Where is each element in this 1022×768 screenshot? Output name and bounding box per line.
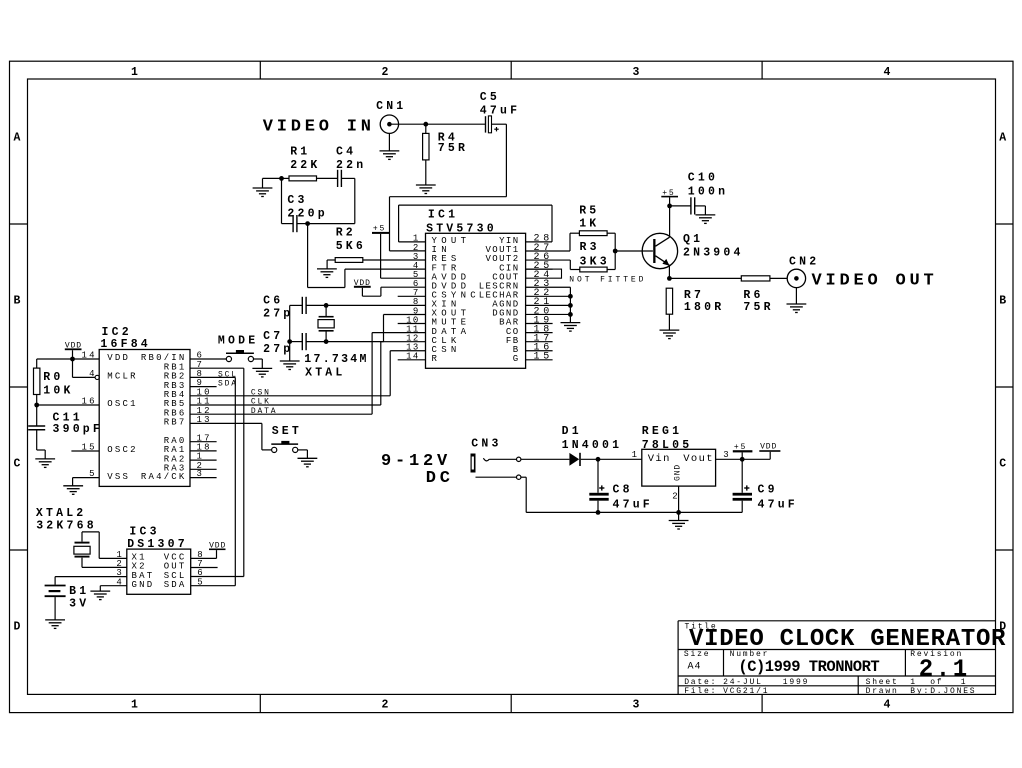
svg-text:VIDEO OUT: VIDEO OUT	[812, 272, 938, 291]
svg-text:4: 4	[883, 699, 893, 712]
wire X1 pin 1	[99, 557, 127, 559]
connector CN2	[787, 256, 819, 304]
power VDD at REG1 output	[742, 442, 780, 459]
IC1 unconnected stubs pins 7 10 14	[398, 296, 426, 359]
svg-text:Vin: Vin	[648, 453, 671, 465]
ground at IC3 GND	[90, 591, 110, 600]
wire loop IC1 pin1 YOUT to pin28 YIN	[399, 205, 552, 242]
svg-text:C7: C7	[263, 330, 283, 343]
junction CN1/R4/C5	[423, 122, 428, 127]
svg-text:3: 3	[632, 699, 642, 712]
svg-text:File:: File:	[684, 687, 717, 696]
junction D1/C8	[596, 457, 601, 462]
svg-text:22K: 22K	[290, 159, 320, 172]
svg-text:GND: GND	[673, 464, 682, 481]
title block	[678, 621, 1006, 696]
svg-text:B: B	[999, 295, 1009, 308]
svg-text:D1: D1	[562, 425, 582, 438]
ground at R1 left	[253, 178, 282, 196]
svg-text:2: 2	[381, 66, 391, 79]
ground at rail	[669, 512, 689, 529]
svg-text:VIDEO IN: VIDEO IN	[263, 118, 375, 137]
junction +5/C10	[667, 204, 672, 209]
IC2 16F84 body	[99, 326, 190, 486]
svg-text:13: 13	[197, 415, 212, 425]
svg-text:RB7: RB7	[164, 418, 187, 428]
svg-text:75R: 75R	[743, 301, 773, 314]
wires IC1 pins 20-23 to ground	[526, 287, 571, 322]
wire MCLR pin 4	[73, 359, 100, 380]
IC3 pin numbers	[116, 550, 204, 587]
svg-text:VIDEO CLOCK GENERATOR: VIDEO CLOCK GENERATOR	[689, 626, 1006, 653]
svg-text:IC3: IC3	[129, 526, 159, 539]
junction C7 left	[287, 339, 292, 344]
svg-text:14: 14	[82, 351, 97, 361]
ground at R2 left	[317, 260, 337, 277]
svg-text:By:: By:	[910, 687, 930, 696]
svg-text:2: 2	[381, 699, 391, 712]
svg-text:A: A	[13, 132, 23, 145]
wire XIN pin 8	[326, 304, 425, 306]
capacitor C5 47uF	[480, 91, 520, 133]
power +5 at Q1 collector	[661, 189, 678, 206]
resistor R3 3K3 not fitted	[526, 241, 616, 272]
svg-text:100n: 100n	[688, 185, 728, 198]
svg-text:G: G	[513, 354, 520, 364]
wire node down to IC1 pin 4 FTR	[308, 224, 426, 288]
transistor-switch MODE button	[190, 335, 262, 369]
ground under B1	[45, 620, 65, 629]
ground under VSS	[63, 486, 83, 495]
svg-text:VCG21/1: VCG21/1	[723, 687, 769, 696]
svg-text:R2: R2	[336, 227, 356, 240]
svg-text:32K768: 32K768	[36, 520, 97, 533]
power VDD to IC1 pin 6 DVDD	[354, 279, 426, 296]
wire OSC1 pin 16	[37, 404, 99, 406]
capacitor C3 220p	[282, 178, 328, 232]
svg-text:180R: 180R	[684, 301, 724, 314]
svg-text:RA4/CK: RA4/CK	[141, 472, 187, 482]
IC3 DS1307 body	[127, 526, 191, 595]
wire C5 to IC1 pin 2	[390, 124, 507, 251]
svg-text:C: C	[13, 458, 23, 471]
svg-text:47uF: 47uF	[613, 499, 653, 512]
resistor R2 5K6	[327, 227, 425, 263]
svg-text:15: 15	[534, 352, 553, 363]
svg-text:4: 4	[116, 577, 124, 587]
svg-text:Vout: Vout	[683, 453, 714, 465]
IC2 right pin names	[141, 353, 187, 482]
junction REG1 gnd rail	[676, 510, 681, 515]
svg-text:OSC1: OSC1	[107, 399, 137, 409]
svg-text:4: 4	[89, 369, 97, 379]
junction R0/C11/OSC1	[34, 403, 39, 408]
svg-text:390pF: 390pF	[53, 423, 104, 436]
ground IC1 analog/digital	[561, 323, 581, 332]
junction C8 rail	[596, 510, 601, 515]
junction DGND	[568, 303, 573, 308]
diode D1 1N4001	[562, 425, 623, 466]
switch SET button	[190, 423, 307, 458]
junction VDD/R0	[70, 357, 75, 362]
svg-text:C9: C9	[758, 483, 778, 496]
ground under CN2	[787, 304, 807, 313]
svg-text:1: 1	[910, 678, 917, 687]
op-amp U IC1 STV5730 body	[426, 209, 526, 369]
wire OUT stub pin 7	[191, 567, 218, 569]
junction pin20	[568, 312, 573, 317]
svg-text:SET: SET	[272, 425, 302, 438]
svg-text:C: C	[999, 458, 1009, 471]
svg-text:9-12V: 9-12V	[381, 452, 451, 471]
wire CLK IC1 pin12 to RB5	[190, 342, 426, 405]
svg-text:DATA: DATA	[251, 407, 277, 416]
IC2 right pin numbers	[197, 351, 212, 480]
svg-text:A4: A4	[688, 662, 702, 673]
IC1 left pin names	[432, 236, 481, 364]
junction XTAL bottom	[324, 339, 329, 344]
svg-text:R: R	[432, 354, 442, 364]
svg-text:1999: 1999	[783, 678, 809, 687]
svg-text:XTAL: XTAL	[305, 366, 345, 379]
svg-text:16: 16	[82, 397, 97, 407]
IC1 right unconnected stubs pins 15-19 25	[526, 269, 553, 360]
power +5 to IC1 pin 5 AVDD	[372, 224, 426, 278]
svg-text:VDD: VDD	[107, 353, 130, 363]
power VDD at IC3 VCC	[191, 542, 227, 559]
svg-text:27p: 27p	[263, 343, 293, 356]
svg-text:1: 1	[131, 699, 141, 712]
capacitor C8 47uF	[589, 459, 653, 512]
ground under C7	[280, 342, 300, 370]
net label 9-12V DC	[381, 452, 454, 488]
resistor R6 75R	[669, 276, 787, 314]
resistor R5 1K	[526, 205, 616, 251]
svg-text:3: 3	[632, 66, 642, 79]
wire CN1 to node	[389, 123, 425, 125]
svg-text:CSN: CSN	[251, 389, 271, 398]
IC1 pin 24 no-connect box	[526, 269, 562, 278]
svg-text:CN2: CN2	[789, 256, 819, 269]
svg-text:D: D	[13, 621, 23, 634]
junction +5/C9/VDD	[740, 457, 745, 462]
svg-text:MCLR: MCLR	[107, 372, 137, 382]
junction C3/C4/R2 node	[305, 221, 310, 226]
svg-text:3K3: 3K3	[580, 255, 610, 268]
wire GND pin 4 to ground	[100, 586, 127, 591]
svg-text:R5: R5	[579, 205, 599, 218]
capacitor C10 100n	[670, 172, 729, 215]
svg-text:DC: DC	[426, 469, 454, 488]
ground under CN1	[380, 133, 400, 159]
capacitor C4 22n	[336, 145, 366, 187]
svg-text:5: 5	[89, 469, 97, 479]
svg-text:CLK: CLK	[251, 398, 271, 407]
svg-text:CN3: CN3	[471, 437, 501, 450]
svg-text:D.JONES: D.JONES	[930, 687, 976, 696]
svg-text:B: B	[13, 295, 23, 308]
svg-text:4: 4	[883, 66, 893, 79]
wire REG1 GND pin 2 to rail	[678, 486, 680, 512]
svg-text:C5: C5	[480, 91, 500, 104]
voltage regulator REG1 78L05	[632, 425, 731, 502]
svg-text:VDD: VDD	[760, 442, 777, 451]
capacitor C6 27p	[263, 294, 326, 320]
ground under C11	[35, 459, 55, 468]
svg-text:47uF: 47uF	[480, 104, 520, 117]
resistor R4 75R	[423, 124, 469, 185]
connector CN3 dc jack	[471, 437, 521, 479]
svg-text:(C)1999 TRONNORT: (C)1999 TRONNORT	[738, 658, 879, 676]
wire C6 side down to C7	[289, 305, 291, 341]
junction R5/R3 output	[613, 249, 618, 254]
power VDD at IC2 pin 14	[65, 342, 99, 360]
ground under C10	[696, 215, 716, 224]
wire DATA IC1 pin11 to RB6	[190, 333, 426, 415]
svg-text:14: 14	[406, 352, 420, 362]
IC3 pin names	[132, 553, 187, 590]
svg-text:C10: C10	[688, 172, 718, 185]
svg-text:1K: 1K	[579, 218, 599, 231]
capacitor C7 27p	[263, 330, 326, 356]
wire CN3 to D1	[521, 458, 570, 460]
svg-text:VSS: VSS	[107, 472, 130, 482]
ground under SET	[298, 458, 318, 467]
svg-text:Sheet: Sheet	[866, 678, 899, 687]
wire REG1 out pin 3	[716, 458, 743, 460]
crystal XTAL 17.734M	[304, 305, 368, 379]
IC2 left pin names	[107, 353, 137, 482]
resistor R7 180R	[666, 288, 724, 330]
wire SCL RB1 to IC3	[190, 368, 244, 576]
wire CN3 ground rail	[521, 477, 742, 512]
svg-text:5K6: 5K6	[336, 240, 366, 253]
svg-text:10K: 10K	[43, 384, 73, 397]
battery B1 3V	[45, 577, 127, 620]
svg-text:of: of	[930, 678, 943, 687]
junction R1/C3 left node	[279, 176, 284, 181]
svg-text:C3: C3	[287, 194, 307, 207]
svg-text:SDA: SDA	[164, 580, 187, 590]
svg-text:R0: R0	[43, 371, 63, 384]
resistor R0 10K	[34, 359, 74, 405]
svg-text:GND: GND	[132, 580, 155, 590]
svg-text:1: 1	[632, 450, 640, 460]
svg-text:75R: 75R	[438, 142, 468, 155]
IC2 unconnected stubs RB3 RA0-RA4	[190, 387, 217, 478]
wire VSS pin 5 to ground	[73, 478, 100, 486]
svg-text:24-JUL: 24-JUL	[723, 678, 763, 687]
svg-text:OSC2: OSC2	[107, 445, 137, 455]
ground under MODE	[252, 368, 272, 377]
wire node to C5	[426, 123, 486, 125]
svg-text:1: 1	[131, 66, 141, 79]
power +5 at REG1 output	[733, 443, 753, 459]
svg-text:B1: B1	[69, 585, 89, 598]
svg-text:C6: C6	[263, 294, 283, 307]
svg-text:XTAL2: XTAL2	[36, 507, 87, 520]
junction C6/XTAL	[324, 303, 329, 308]
wire VDD junction to R0	[37, 358, 73, 360]
capacitor C11 390pF	[28, 405, 103, 459]
svg-text:R1: R1	[290, 145, 310, 158]
svg-text:17.734M: 17.734M	[304, 353, 368, 366]
ground under R4	[416, 185, 436, 194]
svg-text:27p: 27p	[263, 308, 293, 321]
svg-text:Date:: Date:	[684, 678, 717, 687]
svg-text:R3: R3	[580, 241, 600, 254]
wire D1 to REG1	[581, 458, 642, 460]
svg-text:MODE: MODE	[218, 335, 258, 348]
svg-text:15: 15	[82, 443, 97, 453]
junction AGND	[568, 294, 573, 299]
svg-text:2N3904: 2N3904	[683, 246, 744, 259]
svg-text:1: 1	[961, 678, 968, 687]
resistor R1 22K	[282, 145, 338, 181]
svg-text:47uF: 47uF	[758, 499, 798, 512]
svg-text:Size: Size	[684, 650, 710, 659]
wire CSN IC1 pin13 to RB4	[190, 351, 426, 396]
svg-text:IC1: IC1	[428, 209, 458, 222]
svg-text:5: 5	[197, 577, 205, 587]
svg-text:Q1: Q1	[683, 233, 703, 246]
svg-text:Drawn: Drawn	[866, 687, 899, 696]
junction Q1 emitter	[667, 276, 672, 281]
IC1 right pin numbers	[534, 234, 553, 363]
svg-text:C8: C8	[613, 483, 633, 496]
crystal XTAL2 32K768	[36, 507, 127, 567]
svg-text:SDA: SDA	[218, 380, 238, 389]
svg-text:1N4001: 1N4001	[562, 439, 623, 452]
svg-text:22n: 22n	[336, 159, 366, 172]
IC2 left pin numbers	[82, 351, 97, 480]
IC1 left pin numbers	[406, 234, 420, 362]
wire C4 down to C3 node	[308, 178, 355, 223]
svg-text:A: A	[999, 132, 1009, 145]
wire OSC2 stub pin 15	[71, 450, 99, 452]
wire R5/R3 to Q1 base	[615, 233, 653, 269]
wire SDA RB2 to IC3	[190, 377, 235, 585]
svg-text:CN1: CN1	[376, 100, 406, 113]
svg-text:NOT FITTED: NOT FITTED	[569, 275, 646, 284]
transistor Q1 2N3904	[642, 206, 743, 279]
IC1 right pin names	[479, 236, 520, 364]
wire XOUT pin 9	[326, 315, 425, 342]
ground under R7	[660, 330, 680, 339]
capacitor C9 47uF	[733, 459, 798, 512]
connector CN1	[376, 100, 406, 133]
svg-text:3V: 3V	[69, 598, 89, 611]
svg-text:C4: C4	[336, 145, 356, 158]
svg-text:REG1: REG1	[642, 425, 682, 438]
